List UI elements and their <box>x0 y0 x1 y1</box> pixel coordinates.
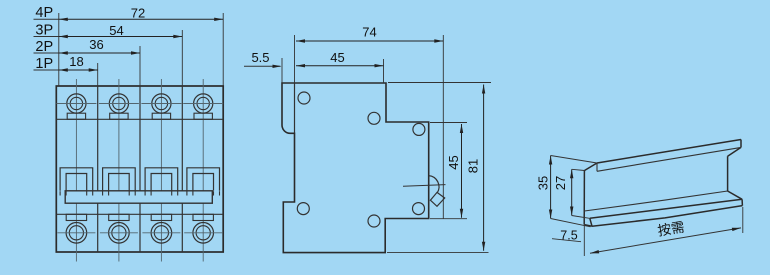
svg-text:4P: 4P <box>35 5 53 21</box>
svg-text:35: 35 <box>535 176 550 190</box>
svg-text:45: 45 <box>446 155 461 169</box>
svg-text:2P: 2P <box>35 39 53 55</box>
svg-text:72: 72 <box>131 6 145 21</box>
svg-text:45: 45 <box>330 50 344 65</box>
svg-text:74: 74 <box>362 25 376 40</box>
svg-text:1P: 1P <box>35 56 53 72</box>
svg-text:5.5: 5.5 <box>251 50 269 65</box>
svg-text:36: 36 <box>89 37 103 52</box>
svg-text:3P: 3P <box>35 22 53 38</box>
svg-text:18: 18 <box>69 54 83 69</box>
svg-text:54: 54 <box>109 23 123 38</box>
svg-text:27: 27 <box>553 176 568 190</box>
svg-text:81: 81 <box>466 159 481 173</box>
